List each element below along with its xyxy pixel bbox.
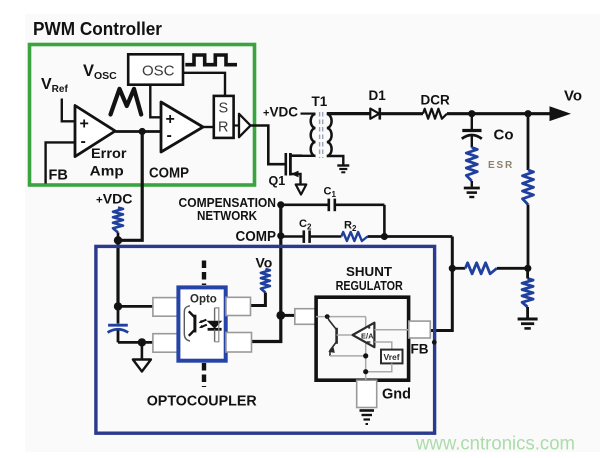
svg-text:Amp: Amp <box>90 163 124 179</box>
wire divider top <box>527 114 530 170</box>
wire junction to shunt input resistor <box>281 314 295 317</box>
label COMP pin <box>149 166 189 182</box>
node COMP junction dot <box>139 128 146 135</box>
resistor R2 <box>341 220 367 242</box>
wire COMP node down to pullup junction <box>118 132 142 241</box>
svg-text:COMP: COMP <box>236 229 277 245</box>
op-amp E/A shunt error amp <box>337 323 375 348</box>
svg-text:REGULATOR: REGULATOR <box>336 278 404 293</box>
shunt regulator box <box>316 297 409 380</box>
svg-text:COMP: COMP <box>149 166 189 182</box>
svg-text:OPTOCOUPLER: OPTOCOUPLER <box>147 394 258 410</box>
label COMP node <box>236 229 277 245</box>
label Q1 <box>269 174 286 188</box>
op-amp U1 Error Amp <box>75 106 115 157</box>
svg-text:COMPENSATION: COMPENSATION <box>179 196 277 210</box>
watermark <box>415 433 575 455</box>
square wave symbol <box>185 55 237 65</box>
Vref ground wire <box>366 363 392 371</box>
resistor opto LED top-left <box>153 298 180 317</box>
wire FB riser <box>430 237 452 331</box>
triangle wave symbol <box>111 89 142 115</box>
svg-text:Vref: Vref <box>384 352 400 362</box>
svg-text:Co: Co <box>494 127 514 144</box>
Vref box <box>381 350 403 364</box>
label Vo output <box>564 88 582 105</box>
wire ESR to ground <box>471 181 473 187</box>
opto device blue box <box>178 287 225 360</box>
capacitor C2 <box>281 218 342 243</box>
wire comparator to SR <box>203 126 214 128</box>
label OPTOCOUPLER <box>147 394 258 410</box>
svg-text:FB: FB <box>411 342 429 357</box>
resistor opto top-right <box>226 297 251 315</box>
wire FB to error amp - input <box>46 142 74 183</box>
svg-text:PWM Controller: PWM Controller <box>33 18 162 39</box>
wire junction to ground arrow <box>141 342 144 358</box>
wire output rail to Vo arrow <box>447 112 551 115</box>
dashed axis above opto <box>202 261 206 286</box>
ground T1 secondary <box>337 166 349 173</box>
node COMP net dot <box>277 232 284 239</box>
svg-text:D1: D1 <box>369 88 387 103</box>
transistor Q1 MOSFET <box>286 153 302 184</box>
node opto ground junction <box>138 338 146 346</box>
capacitor opto filter <box>108 306 129 342</box>
node pin dot on blue edge <box>432 340 437 345</box>
dashed axis below opto <box>202 363 206 387</box>
svg-text:Vo: Vo <box>256 255 273 271</box>
node shunt vref dot <box>363 369 368 374</box>
phototransistor inside opto <box>184 306 195 341</box>
resistor COMP pullup <box>113 208 123 241</box>
Q1 source arrow to ground <box>296 185 307 195</box>
transistor shunt internal <box>327 317 366 356</box>
latch U3 S R box <box>214 96 234 138</box>
label Vo opto pullup <box>256 255 273 271</box>
LED inside opto <box>207 308 223 342</box>
wire OSC to comparator + input <box>150 85 161 118</box>
wire cap to bottom-left resistor <box>118 341 153 344</box>
svg-text:T1: T1 <box>312 94 328 109</box>
ground shunt <box>360 411 375 425</box>
buffer driver triangle <box>234 114 251 137</box>
wire VRef to error amp + input <box>62 99 74 122</box>
svg-text:Q1: Q1 <box>269 174 286 188</box>
label ESR <box>488 160 514 171</box>
wire junction to LED resistor <box>118 305 153 308</box>
label FB shunt <box>411 342 429 357</box>
label FB pin <box>49 168 68 184</box>
node C1 branch dot <box>277 201 284 208</box>
svg-text:R: R <box>218 120 228 136</box>
resistor divider lower <box>522 268 533 317</box>
PWM controller green box <box>30 45 255 186</box>
wire buffer output to Q1 gate <box>251 126 285 165</box>
label Error Amp <box>90 145 127 179</box>
label VOSC <box>83 62 117 82</box>
ground divider <box>518 319 538 328</box>
svg-text:Gnd: Gnd <box>382 387 411 403</box>
node shunt input junction <box>276 311 285 320</box>
PWM Controller title <box>33 18 162 39</box>
transformer T1 <box>311 94 332 158</box>
svg-text:-: - <box>167 127 172 144</box>
resistor Vo opto pullup <box>261 269 270 293</box>
node divider mid junction <box>524 265 531 272</box>
node pullup junction dot <box>114 236 122 244</box>
ground ESR <box>464 188 480 197</box>
resistor divider upper <box>523 170 534 205</box>
resistor feedback divider tap <box>452 263 528 274</box>
svg-text:S: S <box>219 101 229 117</box>
svg-text:+VDC: +VDC <box>96 192 133 207</box>
wire error amp output to comparator - input <box>115 130 161 133</box>
wire R2 to FB riser <box>368 235 453 238</box>
wire divider middle <box>527 205 530 269</box>
svg-text:-: - <box>81 133 86 150</box>
wire T1 secondary bottom to ground <box>327 156 344 165</box>
svg-text:E/A: E/A <box>361 332 374 341</box>
wire OSC to SR latch <box>183 73 225 96</box>
resistor shunt FB output <box>409 321 431 338</box>
svg-text:Opto: Opto <box>190 294 217 306</box>
resistor ESR <box>466 148 477 182</box>
shunt internal input wire <box>316 316 366 318</box>
Gnd pin box <box>357 380 377 407</box>
node shunt emitter dot <box>363 353 368 358</box>
svg-text:ESR: ESR <box>488 160 514 171</box>
svg-text:+VDC: +VDC <box>263 105 298 120</box>
shunt EA output wires <box>374 330 408 350</box>
ground arrow opto <box>133 360 151 372</box>
node opto anode junction <box>114 302 122 310</box>
node tap junction <box>449 265 456 272</box>
shunt internal right rail <box>365 317 367 407</box>
oscillator OSC box <box>128 54 183 84</box>
svg-text:NETWORK: NETWORK <box>197 209 257 223</box>
resistor opto bottom-left <box>153 334 180 353</box>
svg-text:OSC: OSC <box>142 63 175 80</box>
diode D1 <box>369 88 387 120</box>
capacitor Co <box>462 114 514 148</box>
op-amp U2 PWM comparator <box>161 102 203 152</box>
label +VDC pullup <box>96 192 133 207</box>
label SHUNT REGULATOR <box>336 264 404 293</box>
resistor DCR <box>421 93 450 119</box>
svg-text:+: + <box>166 111 175 128</box>
svg-text:Error: Error <box>91 145 127 161</box>
node Co junction <box>468 110 475 117</box>
wire T1 primary bottom to Q1 drain <box>290 155 315 157</box>
svg-text:www.cntronics.com: www.cntronics.com <box>415 433 575 455</box>
node R2 C1 junction <box>381 233 388 240</box>
wire pullup junction down to opto <box>116 240 119 306</box>
svg-text:Vo: Vo <box>564 88 582 105</box>
optocoupler outer blue box <box>96 246 435 433</box>
resistor opto bottom-right <box>226 333 252 353</box>
capacitor C1 <box>281 186 385 237</box>
svg-text:SHUNT: SHUNT <box>346 264 392 279</box>
svg-text:DCR: DCR <box>421 93 450 108</box>
light arrows <box>199 320 207 328</box>
wire COMP net down to shunt input <box>252 205 281 342</box>
wire Vo resistor to opto collector resistor <box>251 293 266 306</box>
wire T1 secondary top to D1 <box>327 112 371 115</box>
node divider junction <box>524 110 531 117</box>
svg-text:FB: FB <box>49 168 68 184</box>
resistor shunt input <box>295 309 316 325</box>
label Gnd <box>382 387 411 403</box>
wire +VDC dash to T1 <box>301 112 316 114</box>
node shunt base dot <box>325 314 330 319</box>
label VRef <box>41 76 68 95</box>
svg-text:+: + <box>80 116 89 133</box>
Vo output arrow <box>550 106 572 121</box>
label COMPENSATION NETWORK <box>179 196 277 223</box>
wire D1 to DCR <box>381 112 423 115</box>
label +VDC supply (primary) <box>263 105 298 120</box>
